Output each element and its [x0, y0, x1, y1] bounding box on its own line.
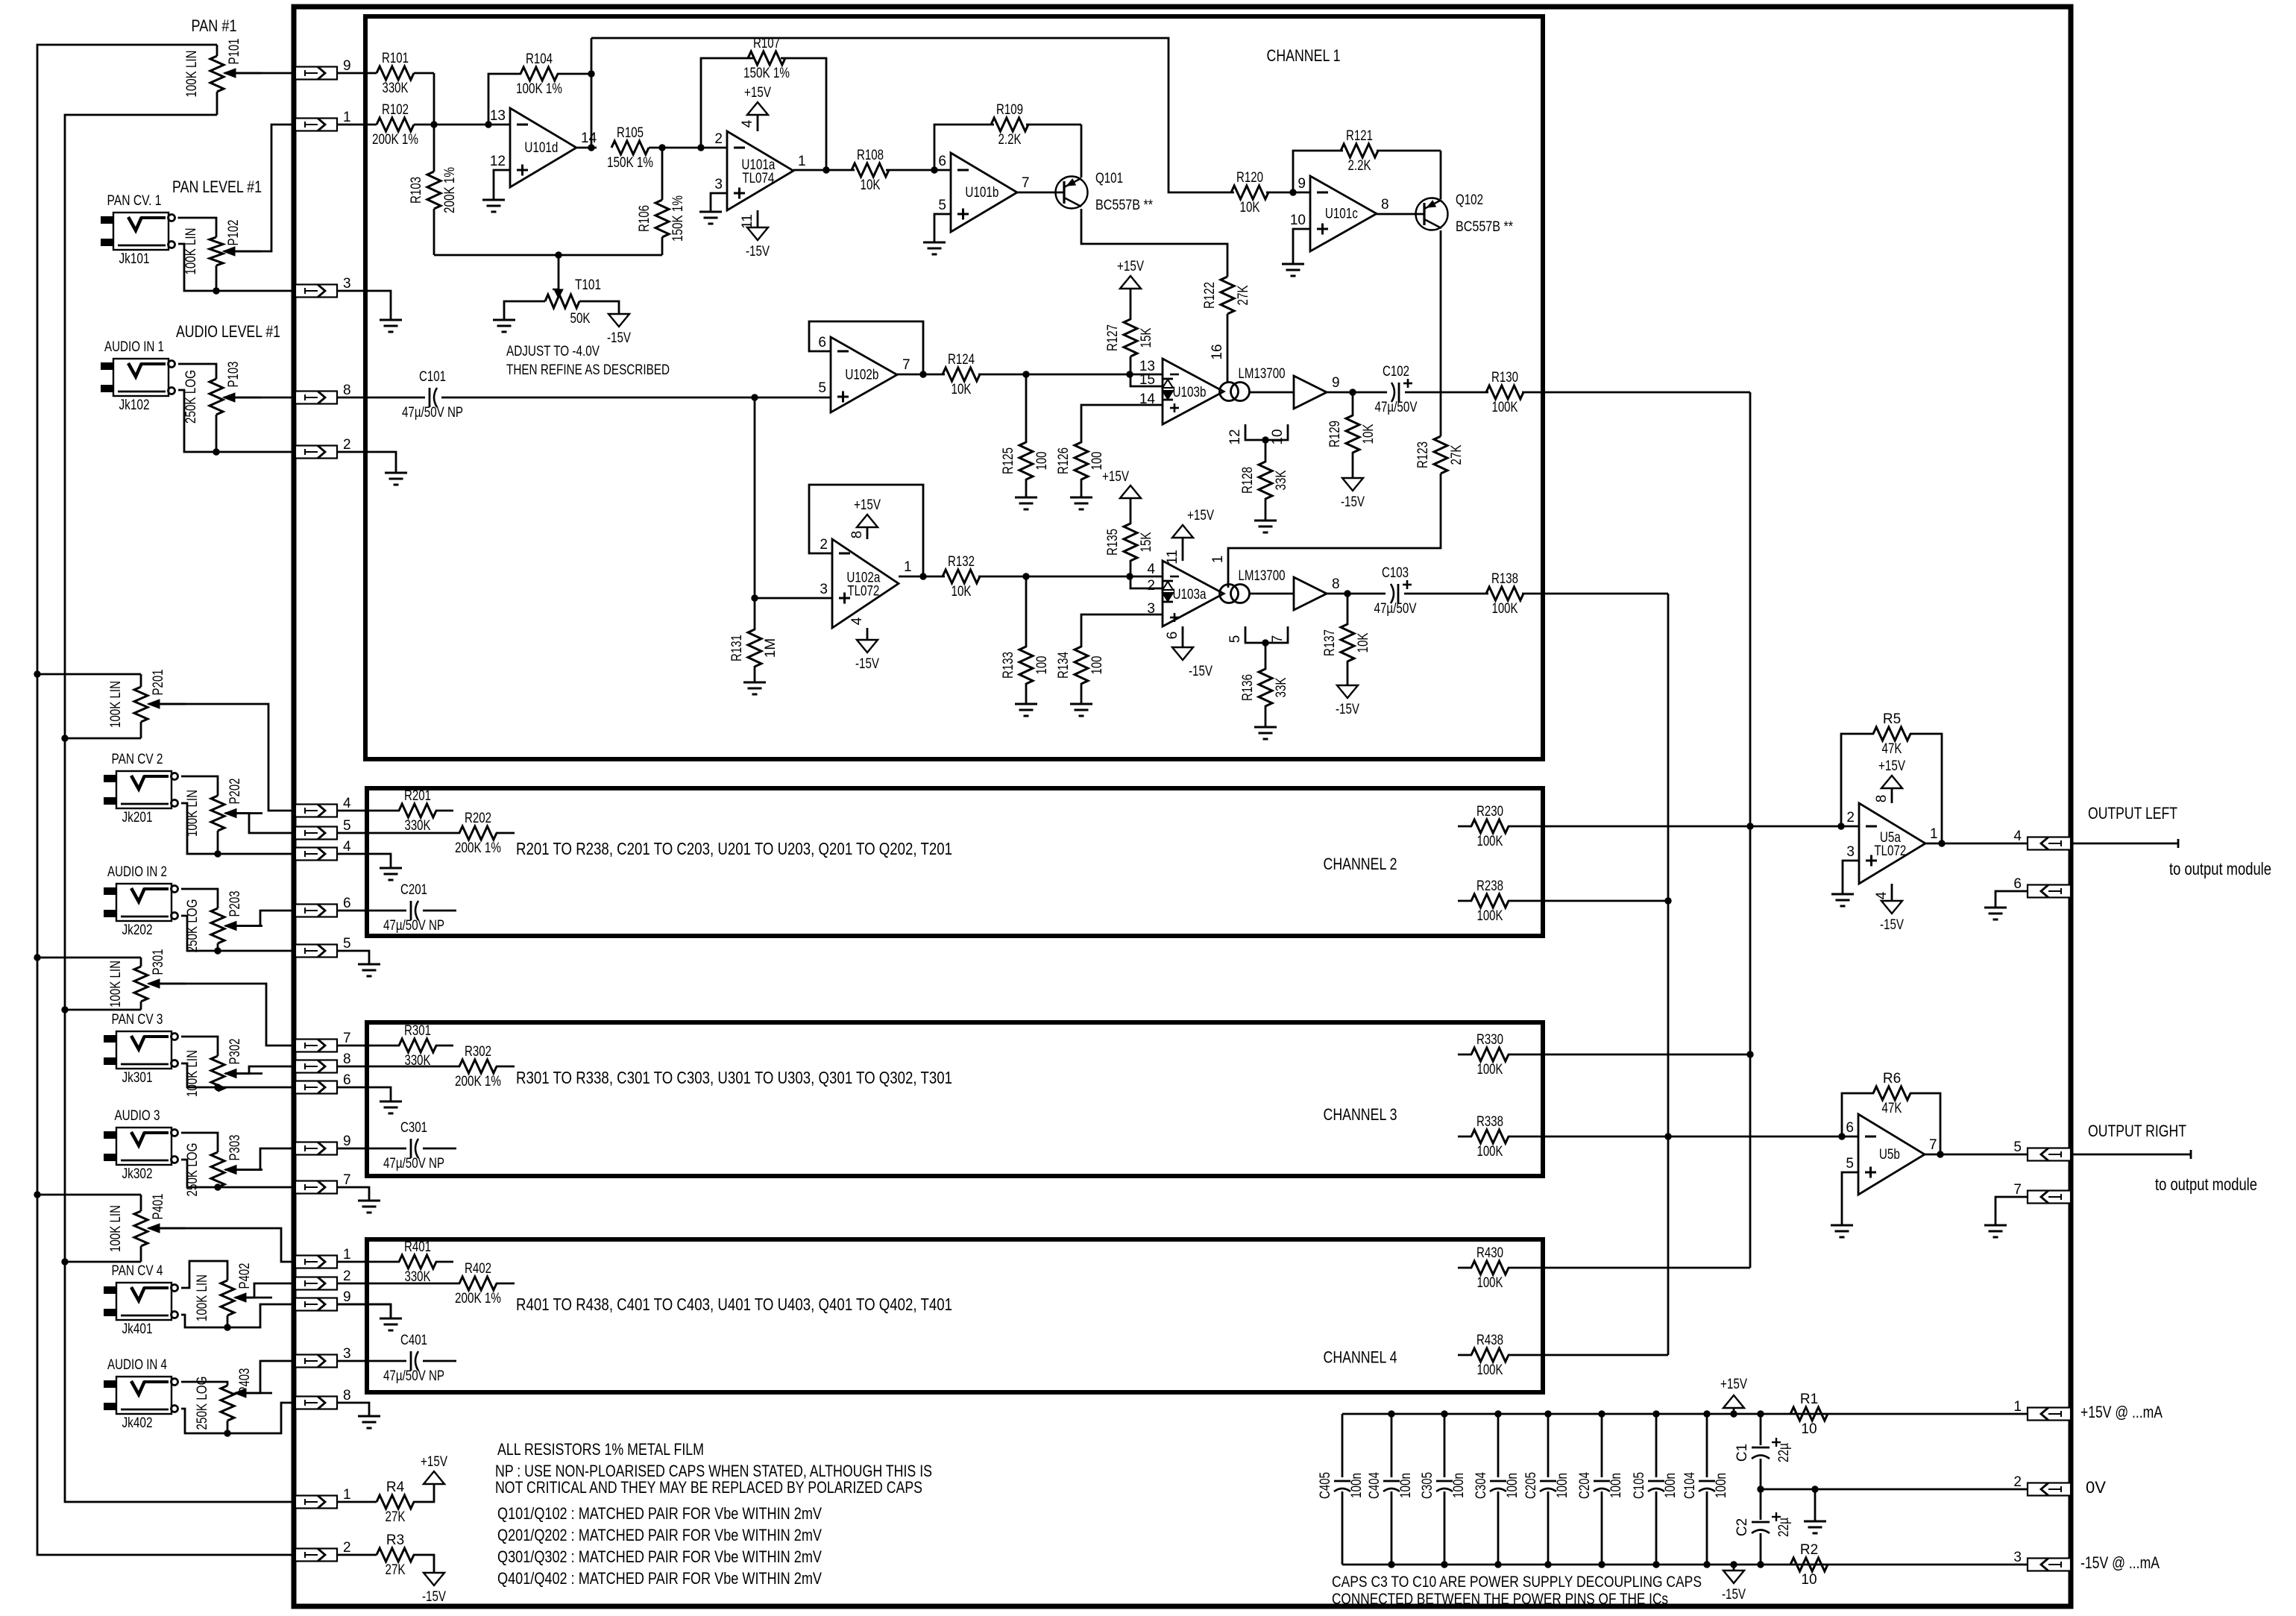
svg-text:P102: P102: [226, 220, 242, 246]
svg-text:R136: R136: [1240, 674, 1256, 701]
power -15V U5a pin4: [1891, 884, 1893, 901]
svg-text:1: 1: [343, 1247, 351, 1263]
wire Jk302 tip to P303: [181, 1133, 218, 1152]
ground connector 3: [337, 291, 391, 320]
svg-text:8: 8: [1332, 576, 1340, 592]
wire R105 to U101a pin2: [649, 147, 727, 149]
svg-text:2: 2: [820, 537, 828, 553]
svg-text:100: 100: [1089, 452, 1105, 471]
svg-text:3: 3: [2013, 1550, 2022, 1565]
potentiometer P103 250K LOG: [210, 379, 223, 415]
wire U5a output to connector 4: [1925, 843, 2028, 845]
svg-text:LM13700: LM13700: [1239, 568, 1286, 584]
svg-text:R301: R301: [404, 1023, 431, 1039]
svg-text:R126: R126: [1056, 447, 1072, 474]
svg-text:R302: R302: [465, 1044, 491, 1060]
svg-text:C204: C204: [1577, 1472, 1593, 1499]
transistor Q101 BC557B: [1056, 177, 1088, 209]
svg-text:9: 9: [1332, 375, 1340, 391]
svg-text:C205: C205: [1523, 1472, 1539, 1499]
svg-text:-15V @ ...mA: -15V @ ...mA: [2080, 1553, 2160, 1572]
svg-text:5: 5: [818, 380, 826, 396]
wire P301 top to -15V bus: [37, 957, 141, 959]
svg-text:47K: 47K: [1882, 1101, 1902, 1116]
svg-text:R201 TO R238, C201 TO C203, U: R201 TO R238, C201 TO C203, U201 TO U203…: [516, 839, 952, 858]
resistor R330 100K: [1458, 1054, 1472, 1056]
resistor R230 100K: [1458, 826, 1472, 828]
svg-text:1: 1: [343, 1487, 351, 1503]
power -15V R129: [1342, 478, 1363, 491]
ground connector 9 ch4: [337, 1304, 391, 1318]
ground U101b pin5: [934, 214, 951, 242]
svg-text:ALL RESISTORS 1% METAL FILM: ALL RESISTORS 1% METAL FILM: [497, 1440, 704, 1459]
ground U101c pin10: [1293, 229, 1310, 264]
wire R102 to U101d pin13: [414, 124, 510, 126]
svg-text:5: 5: [1227, 635, 1243, 644]
svg-text:10K: 10K: [952, 584, 972, 600]
potentiometer P203 250K LOG: [211, 908, 224, 943]
svg-text:AUDIO 3: AUDIO 3: [115, 1108, 160, 1124]
svg-text:27K: 27K: [1236, 285, 1251, 305]
svg-text:100n: 100n: [1608, 1473, 1624, 1498]
svg-text:R5: R5: [1883, 711, 1901, 727]
svg-text:100K: 100K: [1477, 1275, 1503, 1291]
svg-text:6: 6: [343, 896, 351, 911]
svg-text:Q101/Q102 : MATCHED PAIR FOR V: Q101/Q102 : MATCHED PAIR FOR Vbe WITHIN …: [497, 1504, 822, 1523]
svg-text:LM13700: LM13700: [1239, 366, 1286, 382]
buffer U103b output: [1294, 376, 1327, 409]
wire P201 wiper to connector: [148, 704, 295, 811]
svg-text:Jk201: Jk201: [122, 810, 153, 826]
potentiometer P202 100K LIN: [211, 796, 224, 831]
svg-text:10K: 10K: [861, 177, 881, 193]
svg-text:R402: R402: [465, 1261, 491, 1277]
svg-text:OUTPUT LEFT: OUTPUT LEFT: [2088, 804, 2177, 823]
svg-text:R133: R133: [1001, 652, 1016, 679]
channel 3 enclosure box: [367, 1022, 1543, 1176]
svg-text:R101: R101: [382, 51, 409, 66]
svg-text:-15V: -15V: [855, 656, 879, 672]
power -15V R137: [1337, 685, 1358, 698]
svg-text:-15V: -15V: [1336, 702, 1359, 717]
trimmer T101 50K: [558, 255, 560, 291]
svg-text:+15V: +15V: [421, 1454, 447, 1470]
resistor R135 15K: [1120, 485, 1141, 498]
svg-text:2: 2: [2013, 1474, 2022, 1490]
svg-text:Q102: Q102: [1456, 192, 1483, 208]
svg-text:1: 1: [343, 110, 351, 125]
connector pin input A ch3: [295, 1040, 337, 1052]
wire P403 wiper to connector 3: [235, 1361, 295, 1393]
svg-text:R430: R430: [1476, 1245, 1503, 1261]
svg-text:11: 11: [1165, 550, 1180, 565]
svg-text:Q101: Q101: [1095, 171, 1123, 186]
capacitor C404 100n: [1391, 1414, 1393, 1477]
wire R132 to U103a pin4: [978, 576, 1163, 578]
svg-text:8: 8: [1381, 197, 1389, 213]
svg-text:0V: 0V: [2086, 1478, 2106, 1497]
resistor R125 100: [1025, 374, 1028, 443]
wire U102b out to R124: [897, 374, 945, 376]
svg-text:9: 9: [1298, 176, 1306, 192]
wire R131 node to U102a pin3: [755, 597, 832, 600]
ground U5a pin3: [1843, 861, 1859, 894]
resistor R4 27K: [337, 1501, 377, 1503]
svg-text:7: 7: [343, 1031, 351, 1046]
buffer U103a output: [1294, 577, 1327, 610]
wire U101a out to R108: [793, 170, 795, 171]
svg-text:100n: 100n: [1451, 1473, 1467, 1498]
svg-text:+15V: +15V: [1878, 758, 1905, 774]
svg-text:C201: C201: [400, 882, 427, 898]
op-amp U101a TL074: [727, 131, 793, 210]
svg-text:R4: R4: [386, 1480, 405, 1495]
svg-text:C2: C2: [1734, 1518, 1750, 1536]
svg-text:22µ: 22µ: [1776, 1518, 1792, 1537]
svg-text:1: 1: [1930, 826, 1938, 842]
resistor R402 200K 1%: [337, 1283, 460, 1285]
svg-text:R102: R102: [382, 102, 409, 118]
svg-text:9: 9: [343, 58, 351, 74]
wire P301 bottom to +15V bus: [65, 1009, 141, 1011]
resistor R338 100K: [1458, 1136, 1472, 1138]
ground R125: [1015, 497, 1037, 499]
wire C103 to R138: [1404, 593, 1488, 595]
svg-text:8: 8: [343, 383, 351, 398]
svg-text:47µ/50V NP: 47µ/50V NP: [383, 1368, 444, 1384]
svg-text:R3: R3: [386, 1532, 404, 1548]
svg-text:10K: 10K: [1356, 632, 1371, 653]
wire output left off module: [2071, 843, 2178, 845]
svg-text:P403: P403: [237, 1368, 253, 1395]
svg-text:U102b: U102b: [845, 368, 878, 383]
power -15V U103a pin6: [1182, 626, 1184, 647]
connector pin ground C ch2: [295, 848, 337, 861]
resistor R133 100: [1025, 576, 1028, 647]
wire connector9 to R101: [337, 72, 377, 75]
channel 2 enclosure box: [367, 788, 1543, 936]
svg-text:4: 4: [740, 119, 755, 128]
wire R4 to +15V arrow: [413, 1484, 434, 1502]
svg-text:5: 5: [343, 818, 351, 834]
capacitor C405 100n: [1342, 1414, 1344, 1477]
svg-text:PAN CV 4: PAN CV 4: [112, 1263, 163, 1279]
resistor R5 47K feedback: [1841, 734, 1874, 826]
svg-text:AUDIO IN 4: AUDIO IN 4: [107, 1357, 167, 1373]
svg-text:C101: C101: [419, 369, 446, 385]
svg-text:22µ: 22µ: [1776, 1443, 1792, 1462]
wire P203 wiper to connector: [225, 911, 295, 926]
wire P303 wiper to connector: [225, 1148, 295, 1170]
svg-text:150K 1%: 150K 1%: [670, 195, 686, 242]
svg-text:R106: R106: [637, 205, 652, 232]
ground R126: [1070, 497, 1092, 499]
resistor R130 100K: [1486, 386, 1523, 399]
resistor R108 10K: [852, 163, 889, 177]
svg-text:330K: 330K: [383, 81, 409, 96]
svg-text:C401: C401: [400, 1333, 427, 1348]
capacitor C305 100n: [1444, 1414, 1446, 1477]
resistor R138 100K: [1486, 587, 1523, 600]
svg-text:C1: C1: [1734, 1444, 1750, 1462]
svg-text:5: 5: [1846, 1156, 1854, 1172]
wire U5b output to connector 5: [1925, 1154, 2028, 1156]
svg-text:Jk202: Jk202: [122, 922, 153, 938]
wire -15V bus left (x=50): [37, 45, 295, 1555]
svg-text:4: 4: [849, 617, 865, 625]
svg-text:-15V: -15V: [1341, 494, 1365, 510]
svg-text:R401 TO R438, C401 TO C403, U: R401 TO R438, C401 TO C403, U401 TO U403…: [516, 1295, 952, 1314]
svg-text:10K: 10K: [1361, 424, 1377, 444]
wire pin2 link: [1130, 576, 1163, 588]
resistor R238 100K: [1458, 900, 1472, 902]
power +15V U5a pin8: [1881, 776, 1902, 788]
svg-text:8: 8: [849, 531, 865, 539]
wire pin15 link: [1130, 374, 1163, 386]
svg-text:3: 3: [343, 276, 351, 292]
svg-text:11: 11: [740, 214, 755, 229]
op-amp U5a TL072: [1859, 803, 1925, 884]
svg-text:100K 1%: 100K 1%: [516, 81, 562, 97]
svg-text:Jk301: Jk301: [122, 1070, 153, 1086]
svg-text:10: 10: [1270, 429, 1286, 444]
wire 0V rail: [1761, 1488, 2028, 1491]
resistor R123 27K: [1434, 436, 1447, 474]
svg-text:THEN REFINE AS DESCRIBED: THEN REFINE AS DESCRIBED: [506, 362, 670, 378]
wire P303 bottom and Jk302 sleeve to ground connector: [217, 1186, 219, 1189]
ground U101a pin3: [711, 193, 727, 212]
svg-text:P201: P201: [151, 670, 166, 696]
svg-text:R6: R6: [1883, 1071, 1901, 1087]
wire R134 to U103a pin3: [1081, 614, 1163, 647]
power +15V at R4: [424, 1471, 444, 1484]
svg-text:100K: 100K: [1477, 908, 1503, 924]
resistor R302 200K 1%: [337, 1066, 460, 1068]
svg-text:PAN #1: PAN #1: [192, 16, 237, 35]
svg-text:C304: C304: [1473, 1472, 1489, 1499]
svg-text:6: 6: [343, 1072, 351, 1088]
resistor R1 10: [1790, 1407, 1828, 1421]
wire R338 to right bus: [1508, 1136, 1668, 1138]
svg-text:AUDIO IN 2: AUDIO IN 2: [107, 864, 167, 880]
wire buffer8 output row: [1250, 593, 1294, 595]
capacitor C2 22u: [1760, 1489, 1762, 1520]
svg-text:100: 100: [1034, 452, 1050, 471]
connector pin 2 0V: [2028, 1483, 2071, 1496]
resistor R6 47K feedback: [1842, 1093, 1874, 1136]
wire P402 wiper to connector 2: [235, 1283, 295, 1298]
resistor R122 27K: [1221, 277, 1234, 314]
svg-text:Jk302: Jk302: [122, 1166, 153, 1182]
svg-text:8: 8: [343, 1051, 351, 1067]
wire Jk201 tip to P202: [181, 776, 218, 796]
svg-text:CHANNEL 4: CHANNEL 4: [1324, 1348, 1397, 1367]
svg-text:R107: R107: [753, 36, 780, 51]
svg-text:Q301/Q302 : MATCHED PAIR FOR V: Q301/Q302 : MATCHED PAIR FOR Vbe WITHIN …: [497, 1547, 822, 1566]
wire R124 to U103b pin13: [978, 374, 1163, 376]
svg-text:5: 5: [2013, 1139, 2022, 1155]
wire Q101 collector to R122: [1081, 209, 1227, 277]
ground R131: [743, 682, 766, 684]
wire R138 to right output bus: [1522, 593, 1668, 595]
svg-text:6: 6: [1165, 632, 1180, 640]
resistor R201 330K: [337, 810, 400, 812]
wire U103b outputs pins 12 10: [1245, 424, 1288, 440]
svg-text:ADJUST TO -4.0V: ADJUST TO -4.0V: [506, 344, 600, 359]
svg-text:R131: R131: [729, 635, 745, 661]
svg-text:-15V: -15V: [1722, 1587, 1746, 1603]
svg-text:R330: R330: [1476, 1032, 1503, 1048]
svg-text:7: 7: [1022, 175, 1030, 191]
connector pin 2: [295, 446, 337, 459]
svg-text:NOT CRITICAL AND THEY MAY BE R: NOT CRITICAL AND THEY MAY BE REPLACED BY…: [495, 1478, 922, 1497]
svg-text:47µ/50V: 47µ/50V: [1375, 400, 1418, 415]
svg-text:14: 14: [1139, 392, 1156, 407]
power +15V U102a pin8: [866, 527, 869, 539]
wire Jk202 tip to P203: [181, 889, 218, 908]
resistor R3 27K: [337, 1554, 377, 1556]
ground R128: [1254, 520, 1277, 522]
svg-text:7: 7: [902, 357, 910, 373]
svg-text:TL072: TL072: [1874, 843, 1906, 859]
op-amp U102b: [831, 337, 897, 412]
connector pin 1 +15V in: [295, 1496, 337, 1509]
wire Q101 emitter to R109: [1081, 125, 1083, 177]
svg-text:200K 1%: 200K 1%: [455, 840, 501, 856]
svg-text:200K 1%: 200K 1%: [455, 1074, 501, 1090]
wire R3 to -15V arrow: [413, 1555, 434, 1573]
svg-text:CAPS C3 TO C10 ARE POWER SUPP: CAPS C3 TO C10 ARE POWER SUPPLY DECOUPLI…: [1332, 1573, 1702, 1591]
svg-text:R338: R338: [1476, 1114, 1503, 1130]
wire U101d output to R105: [576, 147, 597, 149]
connector pin ground C ch3: [295, 1081, 337, 1094]
capacitor C401 47u/50V NP: [337, 1360, 406, 1362]
potentiometer P401 100K LIN pan: [140, 1195, 142, 1211]
svg-text:P202: P202: [227, 779, 243, 805]
wire P103 wiper to connector 8: [224, 397, 295, 399]
svg-text:U101d: U101d: [524, 140, 558, 156]
wire R103/R106 bottom link with T101: [434, 254, 662, 257]
power -15V at R3: [424, 1573, 444, 1585]
wire P102 wiper to connector 1: [224, 125, 295, 251]
wire +15V rail: [1342, 1413, 2028, 1415]
connector pin ground C ch4: [295, 1298, 337, 1311]
op-amp U102a TL072: [832, 539, 899, 628]
connector pin ground E ch2: [295, 945, 337, 958]
jack Jk202 AUDIO IN 2: [116, 884, 172, 921]
wire U102b feedback loop: [809, 321, 923, 374]
svg-text:-15V: -15V: [746, 244, 770, 260]
svg-text:100K LIN: 100K LIN: [183, 228, 199, 275]
svg-text:100K LIN: 100K LIN: [195, 1274, 210, 1321]
svg-text:TL072: TL072: [847, 584, 879, 600]
svg-text:150K 1%: 150K 1%: [743, 66, 790, 81]
svg-text:AUDIO LEVEL #1: AUDIO LEVEL #1: [176, 322, 280, 341]
connector pin audio D ch3: [295, 1142, 337, 1155]
capacitor C205 100n: [1547, 1414, 1550, 1477]
svg-text:5: 5: [938, 198, 946, 213]
resistor R128 33K: [1265, 440, 1267, 462]
ground connector E ch3: [337, 1187, 369, 1201]
wire left output bus: [1749, 392, 1752, 1268]
svg-text:1: 1: [2013, 1399, 2022, 1415]
wire C101 to U102b pin5: [441, 397, 831, 399]
svg-text:U101c: U101c: [1325, 207, 1358, 222]
svg-text:R137: R137: [1322, 629, 1338, 656]
resistor R136 33K: [1265, 643, 1267, 670]
jack Jk201 PAN CV 2: [116, 771, 172, 808]
svg-text:R135: R135: [1105, 529, 1121, 556]
wire R230 to left bus: [1508, 826, 1750, 828]
wire +15V bus left (x=87): [65, 115, 295, 1502]
wire T101 left to ground: [504, 301, 545, 320]
resistor R120 10K: [1231, 186, 1268, 199]
svg-text:47K: 47K: [1882, 741, 1902, 757]
svg-text:R202: R202: [465, 811, 491, 826]
svg-text:2.2K: 2.2K: [1348, 158, 1371, 174]
svg-text:PAN CV 3: PAN CV 3: [112, 1012, 163, 1028]
capacitor C103 47u/50V: [1391, 584, 1394, 603]
svg-text:2: 2: [714, 131, 723, 147]
connector pin 4 output left: [2028, 837, 2071, 850]
svg-text:C305: C305: [1420, 1472, 1435, 1499]
svg-text:U5b: U5b: [1879, 1147, 1900, 1163]
ground R133: [1015, 703, 1037, 705]
svg-text:R2: R2: [1800, 1542, 1818, 1558]
wire R108 to U101b pin6: [886, 169, 951, 172]
ground R136: [1254, 726, 1277, 729]
svg-text:AUDIO IN 1: AUDIO IN 1: [104, 339, 164, 355]
svg-text:P101: P101: [227, 39, 242, 65]
svg-text:R132: R132: [948, 554, 975, 570]
svg-text:CHANNEL 1: CHANNEL 1: [1267, 46, 1341, 65]
connector pin 2 -15V in: [295, 1549, 337, 1562]
svg-text:R129: R129: [1327, 421, 1343, 447]
svg-text:to output module: to output module: [2155, 1175, 2257, 1194]
capacitor C105 100n: [1655, 1414, 1658, 1477]
svg-text:2: 2: [343, 1540, 351, 1556]
svg-text:12: 12: [1227, 429, 1243, 444]
resistor R132 10K: [943, 570, 980, 583]
power -15V arrow on rail: [1730, 1561, 1737, 1568]
resistor R107 150K 1%: [701, 58, 753, 148]
svg-text:1: 1: [798, 154, 806, 169]
svg-text:P301: P301: [151, 949, 166, 975]
connector pin 9: [295, 67, 337, 80]
svg-text:Jk102: Jk102: [119, 397, 150, 413]
svg-text:R238: R238: [1476, 878, 1503, 894]
capacitor C1 22u: [1760, 1414, 1762, 1445]
wire P401 wiper to connector: [148, 1228, 295, 1262]
svg-text:R120: R120: [1236, 170, 1263, 186]
op-amp U101c: [1310, 176, 1377, 251]
resistor R2 10: [1790, 1558, 1828, 1571]
channel 4 enclosure box: [367, 1239, 1543, 1392]
connector pin 1 +15V out: [2028, 1408, 2071, 1421]
wire P402 bottom and Jk401 sleeve junction: [227, 1315, 229, 1327]
svg-text:R128: R128: [1240, 467, 1256, 494]
svg-text:R134: R134: [1056, 652, 1072, 679]
svg-text:200K 1%: 200K 1%: [442, 167, 458, 213]
capacitor C101 47u/50V NP: [429, 388, 431, 407]
connector pin 3: [295, 285, 337, 298]
connector pin input B ch4: [295, 1277, 337, 1290]
ground connector 2: [337, 452, 396, 473]
OTA U103a LM13700: [1163, 561, 1224, 626]
connector pin input B ch3: [295, 1060, 337, 1073]
svg-text:C404: C404: [1367, 1472, 1383, 1499]
svg-text:6: 6: [818, 335, 826, 350]
